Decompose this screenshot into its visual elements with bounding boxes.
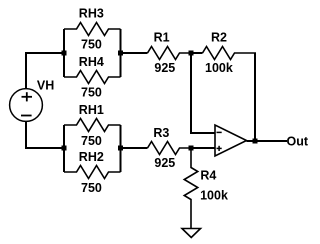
node junction top-left	[62, 51, 67, 56]
wire bottom block right bracket	[120, 125, 122, 172]
wire VH top lead	[26, 53, 64, 89]
wire bottom rail to R3	[121, 147, 148, 149]
wire VH bottom lead	[26, 122, 64, 149]
svg-text:RH4: RH4	[79, 55, 104, 69]
wire noninverting node to op-amp plus input	[191, 147, 215, 149]
svg-text:750: 750	[81, 134, 102, 148]
svg-text:R3: R3	[153, 126, 169, 140]
svg-text:750: 750	[81, 181, 102, 195]
node junction R3-R4 noninverting	[189, 146, 194, 151]
resistor RH1	[64, 119, 121, 132]
node output junction	[253, 139, 258, 144]
resistor RH2	[64, 166, 121, 179]
svg-text:R2: R2	[211, 31, 227, 45]
node junction bottom-right	[118, 146, 123, 151]
svg-text:VH: VH	[37, 79, 54, 93]
svg-text:100k: 100k	[200, 189, 228, 203]
svg-text:750: 750	[81, 86, 102, 100]
node junction top-right	[118, 51, 123, 56]
resistor R1	[148, 47, 192, 60]
ground	[182, 229, 201, 238]
svg-text:925: 925	[154, 156, 175, 170]
svg-text:R4: R4	[200, 169, 216, 183]
wire op-amp output	[247, 140, 288, 142]
resistor RH3	[64, 23, 121, 36]
svg-text:925: 925	[154, 61, 175, 75]
svg-text:RH2: RH2	[79, 150, 104, 164]
resistor R3	[148, 142, 192, 155]
svg-text:Out: Out	[287, 135, 309, 149]
wire top block left bracket	[63, 29, 65, 77]
wire bottom block left bracket	[63, 125, 65, 172]
resistor R4	[184, 148, 198, 229]
wire top block right bracket	[120, 29, 122, 77]
resistor RH4	[64, 71, 121, 84]
wire top rail to R1	[121, 52, 148, 54]
svg-text:RH1: RH1	[79, 103, 104, 117]
wire feedback R2 down to output node	[254, 53, 256, 141]
op-amp U1	[215, 125, 247, 156]
node junction R1-R2 inverting	[189, 51, 194, 56]
svg-text:R1: R1	[154, 31, 170, 45]
wire inverting node down to op-amp minus input	[191, 53, 215, 133]
node junction bottom-left	[62, 146, 67, 151]
wire R1 to R2	[191, 52, 203, 54]
svg-text:RH3: RH3	[79, 7, 104, 21]
resistor R2	[203, 47, 257, 60]
svg-text:100k: 100k	[205, 61, 233, 75]
svg-text:750: 750	[81, 38, 102, 52]
voltage source VH	[10, 89, 43, 122]
